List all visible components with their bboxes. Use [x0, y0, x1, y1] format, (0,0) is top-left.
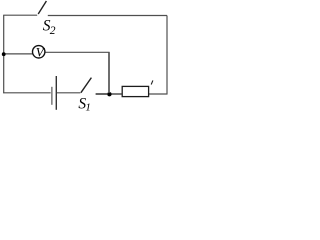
- wire S1 right stub: [96, 93, 108, 95]
- wire voltmeter right segment: [45, 51, 109, 53]
- node left junction dot: [2, 52, 6, 56]
- battery short plate: [51, 87, 53, 105]
- wire resistor left to junction: [109, 93, 122, 95]
- wire top left segment: [3, 14, 37, 16]
- wire voltmeter branch vertical: [108, 52, 110, 93]
- battery long plate: [55, 76, 57, 110]
- wire bottom right to resistor: [149, 93, 168, 95]
- label prime mark: [151, 80, 153, 84]
- resistor R: [122, 86, 148, 96]
- wire voltmeter left segment: [4, 53, 33, 55]
- wire bottom left segment: [3, 92, 51, 94]
- wire right vertical: [166, 16, 168, 95]
- voltmeter U1 circle: [33, 46, 45, 58]
- node junction dot: [107, 92, 111, 96]
- switch S1 blade: [81, 78, 92, 93]
- svg-text:1: 1: [85, 101, 91, 113]
- svg-text:2: 2: [50, 25, 56, 37]
- switch S2 blade: [38, 1, 46, 14]
- wire left vertical: [3, 15, 5, 93]
- wire battery to S1: [57, 92, 81, 94]
- wire top right segment: [48, 15, 167, 17]
